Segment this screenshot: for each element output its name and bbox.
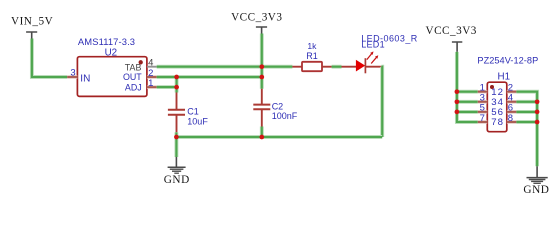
designator C2	[272, 101, 284, 111]
svg-text:VCC_3V3: VCC_3V3	[231, 11, 282, 23]
H1 pin 4 stub	[507, 100, 517, 103]
net label GND (right)	[523, 184, 549, 196]
power symbol VCC_3V3 (right)	[452, 42, 462, 52]
wire OUT rail down to ADJ node	[175, 77, 179, 93]
junction OUT rail / VCC	[259, 75, 264, 80]
H1 pin 5 stub	[478, 110, 488, 113]
header pin names 5 6	[491, 107, 503, 118]
H1 pin 3 stub	[478, 100, 488, 103]
pin number 4	[148, 58, 153, 69]
pin 1 marker dot H1	[490, 85, 494, 89]
wire pin4 row right	[516, 100, 537, 104]
svg-text:C2: C2	[272, 101, 284, 111]
pin number 1	[480, 83, 485, 94]
svg-text:C1: C1	[187, 107, 199, 117]
pin 1 marker dot U2	[139, 60, 143, 64]
LED LED1 symbol	[342, 58, 382, 73]
svg-text:1k: 1k	[307, 41, 317, 51]
svg-text:LED1: LED1	[361, 39, 385, 49]
net label VCC_3V3 (middle)	[231, 11, 282, 23]
junction ADJ / C1	[174, 85, 179, 90]
wire bus to GND	[174, 137, 178, 157]
wire H1 pin5 row	[457, 110, 478, 114]
svg-text:VIN_5V: VIN_5V	[11, 15, 53, 27]
junction VCC / pin5 row	[455, 110, 460, 115]
pin number 7	[480, 113, 485, 124]
H1 pin 6 stub	[507, 110, 517, 113]
wire ADJ to C1 node	[157, 85, 177, 89]
svg-text:7: 7	[480, 113, 485, 124]
svg-text:100nF: 100nF	[272, 111, 298, 121]
H1 pin 2 stub	[507, 90, 517, 93]
pin number 4	[508, 93, 513, 104]
header H1 body	[487, 82, 507, 132]
H1 pin 7 stub	[478, 120, 488, 123]
junction right / pin8 row	[535, 120, 540, 125]
value 100nF	[272, 111, 298, 121]
svg-text:7: 7	[491, 117, 496, 128]
pin 1 stub (ADJ)	[147, 85, 157, 88]
ground symbol (right)	[527, 166, 548, 183]
wire H1 pin1 row	[457, 90, 478, 94]
LED light arrow 2	[371, 55, 378, 63]
wire VIN_5V to U2 IN	[32, 39, 67, 78]
junction VCC / pin3 row	[455, 99, 460, 104]
junction TAB rail / VCC	[259, 64, 264, 69]
pin name TAB	[125, 62, 142, 72]
wire bottom bus	[176, 135, 382, 139]
LED1 label LED-0603_R	[361, 34, 418, 44]
wire pin8 row right	[516, 120, 537, 124]
capacitor C2	[253, 105, 270, 127]
regulator U2 label AMS1117-3.3	[78, 36, 135, 47]
svg-text:1: 1	[148, 78, 153, 89]
pin name ADJ	[125, 83, 142, 93]
resistor R1	[292, 62, 331, 71]
svg-text:H1: H1	[498, 71, 511, 82]
LED light arrow 1	[367, 51, 374, 59]
designator R1	[306, 51, 318, 61]
wire C2 to bus	[260, 127, 264, 138]
svg-text:10uF: 10uF	[187, 117, 208, 127]
pin name IN	[80, 73, 90, 84]
capacitor C2 lead from OUT junction	[261, 89, 263, 105]
designator C1	[187, 107, 199, 117]
port symbol VIN_5V	[26, 32, 37, 39]
pin name OUT	[123, 72, 142, 82]
wire TAB rail (pin4 to R1)	[157, 65, 293, 69]
header pin names 3 4	[491, 97, 503, 108]
pin 2 stub (OUT)	[147, 75, 157, 78]
svg-text:PZ254V-12-8P: PZ254V-12-8P	[477, 56, 538, 66]
wire pin6 row right	[516, 110, 537, 114]
capacitor C1 lead from node	[176, 93, 178, 110]
pin number 1	[148, 78, 153, 89]
pin number 3	[70, 68, 75, 79]
svg-text:3: 3	[70, 68, 75, 79]
H1 pin 1 stub	[478, 90, 488, 93]
junction bus / C1 / GND	[174, 135, 179, 140]
svg-text:8: 8	[498, 117, 503, 128]
value 10uF	[187, 117, 208, 127]
wire LED1 to bottom bus	[379, 67, 384, 137]
net label VIN_5V	[11, 15, 53, 27]
svg-text:R1: R1	[306, 51, 318, 61]
svg-text:OUT: OUT	[123, 72, 142, 82]
svg-text:TAB: TAB	[125, 62, 142, 72]
ground symbol (left)	[168, 157, 186, 173]
capacitor C1	[168, 110, 185, 133]
header pin names 7 8	[491, 117, 503, 128]
svg-text:8: 8	[508, 113, 513, 124]
power symbol VCC_3V3 (middle)	[256, 27, 267, 34]
junction right / pin6 row	[535, 110, 540, 115]
wire OUT rail (pin2 to VCC drop)	[157, 75, 262, 79]
pin 4 stub (TAB)	[147, 66, 157, 68]
pin number 6	[508, 103, 513, 114]
pin number 2	[148, 68, 153, 79]
designator U2	[105, 48, 118, 59]
resistor R1 value 1k	[307, 41, 317, 51]
pin number 2	[508, 83, 513, 94]
regulator U2 body	[77, 57, 146, 97]
wire VCC_3V3 right down to H1 pin7	[457, 52, 478, 122]
header pin names 1 2	[491, 87, 503, 98]
svg-text:VCC_3V3: VCC_3V3	[426, 25, 477, 37]
junction VCC / pin1 row	[455, 89, 460, 94]
pin number 3	[480, 93, 485, 104]
wire C1 to bus	[174, 132, 178, 137]
wire VCC_3V3 down to C2	[260, 34, 264, 89]
svg-text:ADJ: ADJ	[125, 83, 142, 93]
wire H1 pin3 row	[457, 100, 478, 104]
H1 pin 8 stub	[507, 120, 517, 123]
pin 3 stub (IN)	[67, 75, 77, 78]
designator H1	[498, 71, 511, 82]
junction bus / C2	[259, 135, 264, 140]
designator LED1	[361, 39, 385, 49]
wire H1 pin2 row to GND drop	[516, 92, 537, 167]
pin number 5	[480, 103, 485, 114]
junction OUT rail / C1 branch	[174, 75, 179, 80]
net label VCC_3V3 (right)	[426, 25, 477, 37]
pin number 8	[508, 113, 513, 124]
header H1 label PZ254V-12-8P	[477, 56, 538, 66]
svg-text:IN: IN	[80, 73, 90, 84]
net label GND (left)	[164, 174, 190, 186]
junction right / pin4 row	[535, 99, 540, 104]
svg-text:GND: GND	[523, 184, 549, 196]
wire R1 to LED1	[332, 65, 342, 69]
svg-text:GND: GND	[164, 174, 190, 186]
svg-text:AMS1117-3.3: AMS1117-3.3	[78, 36, 135, 47]
